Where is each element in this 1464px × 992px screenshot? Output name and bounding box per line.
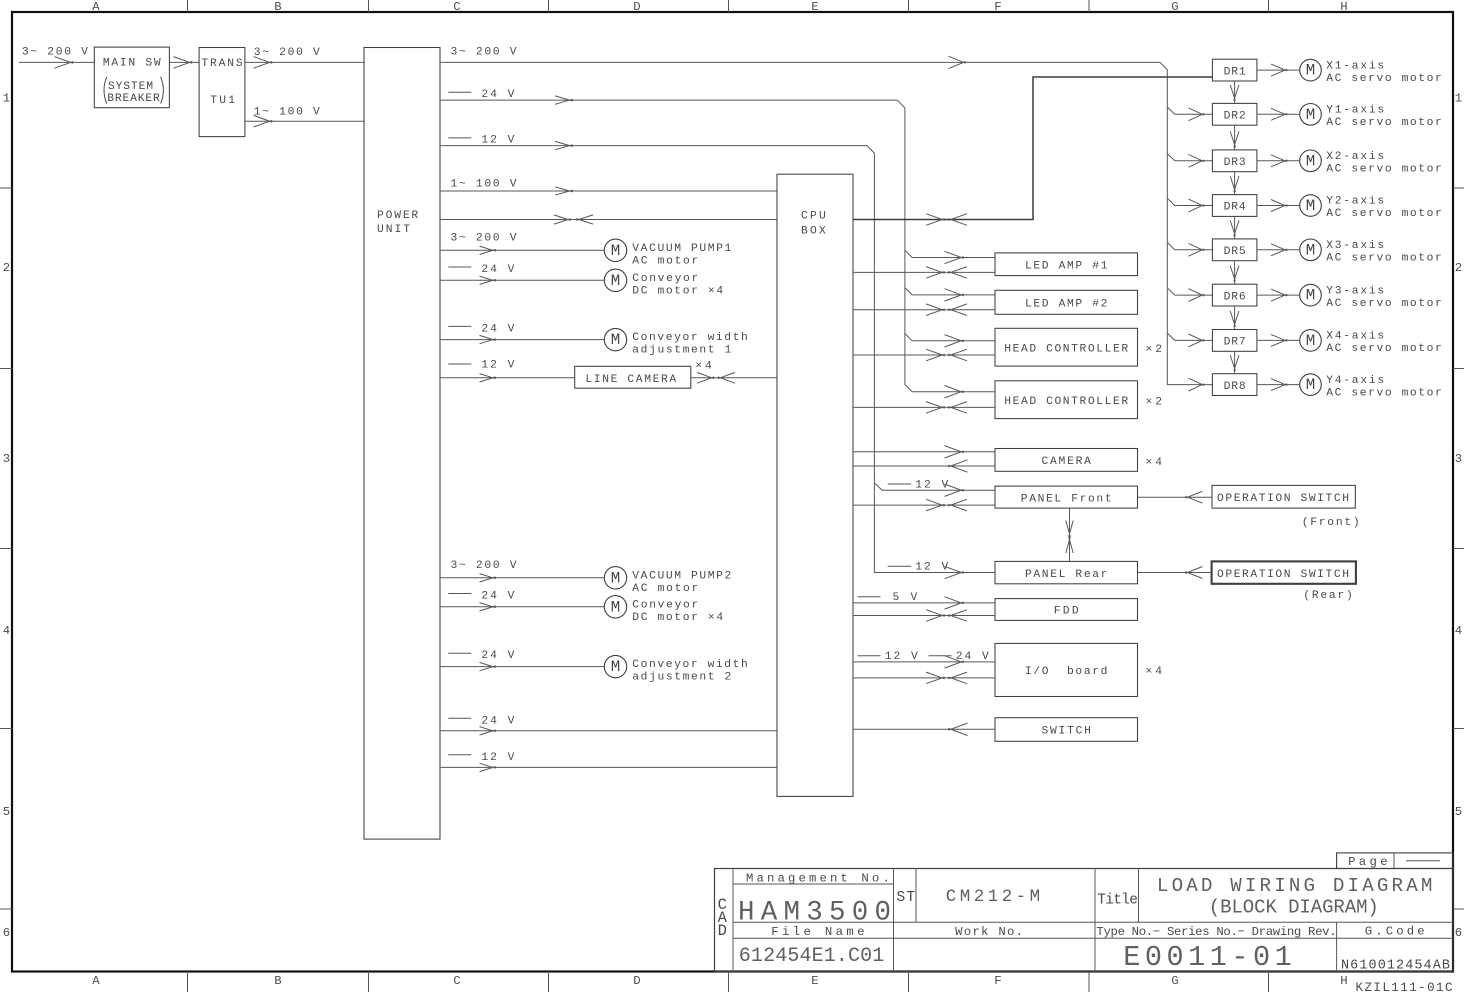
svg-text:LINE CAMERA: LINE CAMERA (585, 374, 676, 386)
svg-text:POWER: POWER (377, 210, 418, 222)
svg-text:6: 6 (1455, 926, 1462, 940)
wire CPU to LED AMP2 bidirectional (853, 304, 995, 316)
line camera box x4 (575, 360, 712, 388)
wire DR4 to DR5 chain (1230, 216, 1239, 239)
servo driver DR1 (1212, 59, 1257, 81)
svg-text:DR1: DR1 (1224, 66, 1246, 78)
wire DR3 to motor (1257, 155, 1299, 167)
wire DR1 to motor (1257, 64, 1299, 76)
wire I/O board to CPU bidirectional (853, 672, 995, 684)
svg-text:UNIT: UNIT (377, 224, 410, 236)
svg-text:1: 1 (3, 92, 10, 106)
svg-text:12 V: 12 V (481, 752, 514, 764)
svg-text:LED AMP #2: LED AMP #2 (1025, 299, 1108, 311)
wire 1~100V to CPU box (440, 179, 777, 196)
svg-text:DC motor ×4: DC motor ×4 (632, 285, 723, 297)
svg-text:LED AMP #1: LED AMP #1 (1025, 260, 1108, 272)
svg-text:Y3-axis: Y3-axis (1326, 285, 1384, 297)
wire MAIN SW to TRANS (169, 57, 199, 69)
svg-text:612454E1.C01: 612454E1.C01 (739, 945, 885, 968)
motor M X1-axis AC servo motor (1300, 59, 1442, 85)
wire 12V to CPU box (440, 752, 777, 772)
motor M conveyor DC motor x4 (2) (604, 596, 723, 624)
panel rear box (995, 561, 1138, 583)
svg-text:5 V: 5 V (893, 592, 918, 604)
svg-text:HEAD CONTROLLER: HEAD CONTROLLER (1004, 396, 1128, 408)
wire 12V bus to panels (440, 134, 995, 572)
wire 24V bus to amplifiers/controllers (440, 89, 995, 398)
svg-text:4: 4 (1455, 624, 1462, 638)
servo driver DR4 (1212, 195, 1257, 217)
svg-text:Conveyor: Conveyor (632, 599, 698, 611)
svg-text:Type No.− Series No.− Drawing: Type No.− Series No.− Drawing Rev. (1096, 925, 1336, 939)
wire operation switch rear to panel rear (1138, 567, 1212, 579)
svg-text:M: M (611, 658, 620, 676)
wire line camera to CPU bidirectional (691, 372, 777, 383)
svg-text:(BLOCK DIAGRAM): (BLOCK DIAGRAM) (1209, 897, 1379, 919)
wire TRANS 3~200V output to POWER UNIT (245, 47, 364, 68)
svg-text:M: M (611, 331, 620, 349)
wire operation switch front to panel front (1138, 491, 1213, 503)
svg-text:M: M (1306, 62, 1315, 80)
svg-text:N610012454AB: N610012454AB (1341, 959, 1450, 974)
svg-text:C: C (453, 0, 460, 14)
svg-text:3~ 200 V: 3~ 200 V (451, 47, 517, 59)
svg-text:adjustment 2: adjustment 2 (632, 672, 731, 684)
svg-text:Conveyor width: Conveyor width (632, 332, 748, 344)
wire DR2 to motor (1257, 108, 1299, 120)
svg-text:M: M (1306, 287, 1315, 305)
svg-text:5: 5 (1455, 805, 1462, 819)
servo driver DR3 (1212, 150, 1257, 172)
servo driver DR8 (1212, 374, 1257, 396)
head controller 1 box x2 (995, 328, 1162, 366)
wire DR1 to DR2 chain (1230, 81, 1239, 103)
svg-text:B: B (274, 974, 281, 988)
svg-text:3: 3 (1455, 452, 1462, 466)
svg-text:PANEL Rear: PANEL Rear (1025, 569, 1108, 581)
title block page cell (1337, 853, 1453, 869)
svg-text:M: M (1306, 197, 1315, 215)
svg-text:H: H (1340, 0, 1347, 14)
wire 12V to line camera (440, 359, 575, 382)
svg-text:OPERATION SWITCH: OPERATION SWITCH (1217, 569, 1349, 581)
svg-text:AC servo motor: AC servo motor (1326, 387, 1442, 399)
wire DR6 to DR7 chain (1230, 306, 1239, 330)
svg-text:VACUUM PUMP1: VACUUM PUMP1 (632, 243, 731, 255)
wire 3~200V mains input (19, 47, 94, 69)
motor M conveyor width adjustment 1 (604, 328, 748, 356)
wire DR3 to DR4 chain (1230, 172, 1239, 195)
svg-text:I/O board: I/O board (1025, 666, 1108, 678)
motor M X4-axis AC servo motor (1300, 330, 1442, 356)
svg-text:M: M (1306, 152, 1315, 170)
svg-text:SYSTEM: SYSTEM (108, 81, 153, 93)
svg-text:DR3: DR3 (1224, 157, 1246, 169)
motor M Y3-axis AC servo motor (1300, 284, 1442, 309)
svg-text:KZIL111-01C: KZIL111-01C (1356, 981, 1453, 992)
wire branches 24V bus to LED AMP 1/2 and HEAD CONTROLLER 1 (905, 250, 995, 347)
svg-text:HEAD CONTROLLER: HEAD CONTROLLER (1004, 343, 1128, 355)
svg-text:24 V: 24 V (481, 264, 514, 276)
svg-text:24 V: 24 V (481, 89, 514, 101)
svg-text:VACUUM PUMP2: VACUUM PUMP2 (632, 570, 731, 582)
servo driver DR2 (1212, 103, 1257, 125)
wire 24V to conveyor width adjustment1 (440, 324, 604, 344)
wire CPU to DR1 (853, 77, 1212, 225)
motor M Y1-axis AC servo motor (1300, 104, 1442, 130)
svg-text:24 V: 24 V (481, 650, 514, 662)
svg-text:CPU: CPU (801, 210, 826, 222)
svg-text:A: A (92, 974, 100, 988)
wire DR2 to DR3 chain (1230, 125, 1239, 150)
svg-text:AC servo motor: AC servo motor (1326, 164, 1442, 176)
wire CPU to LED AMP1 bidirectional (853, 267, 995, 279)
wire DR7 to DR8 chain (1230, 351, 1239, 373)
wire DR6 to motor (1257, 289, 1299, 301)
svg-text:(Front): (Front) (1302, 517, 1360, 529)
servo driver DR6 (1212, 284, 1257, 306)
motor M vacuum pump2 AC motor (604, 567, 731, 595)
svg-text:12 V: 12 V (915, 562, 948, 574)
servo driver DR5 (1212, 239, 1257, 261)
wire POWER UNIT to CPU bidirectional (440, 215, 777, 224)
svg-text:Conveyor: Conveyor (632, 273, 698, 285)
motor M conveyor DC motor x4 (1) (604, 269, 723, 297)
svg-text:PANEL Front: PANEL Front (1021, 493, 1112, 505)
svg-text:4: 4 (3, 624, 10, 638)
svg-text:12 V: 12 V (915, 479, 948, 491)
svg-text:6: 6 (3, 926, 10, 940)
svg-text:3~ 200 V: 3~ 200 V (451, 560, 517, 572)
wire branches 200V bus to DR2-DR7 (1167, 107, 1212, 347)
svg-text:DR4: DR4 (1224, 202, 1246, 214)
svg-text:D: D (633, 974, 640, 988)
svg-text:X1-axis: X1-axis (1326, 60, 1384, 72)
svg-text:1~ 100 V: 1~ 100 V (254, 106, 320, 118)
svg-text:M: M (611, 272, 620, 290)
svg-text:5: 5 (3, 805, 10, 819)
wire DR7 to motor (1257, 334, 1299, 346)
svg-text:M: M (1306, 241, 1315, 259)
wire 24V to conveyor width adjustment2 (440, 650, 604, 671)
motor M X3-axis AC servo motor (1300, 239, 1442, 265)
svg-text:2: 2 (3, 261, 10, 275)
svg-text:24 V: 24 V (481, 716, 514, 728)
label 12V on PANEL Rear feed (888, 562, 964, 579)
motor M vacuum pump1 AC motor (604, 239, 731, 267)
motor M conveyor width adjustment 2 (604, 655, 748, 683)
document code KZIL111-01C (1356, 981, 1453, 992)
svg-text:X3-axis: X3-axis (1326, 240, 1384, 252)
svg-text:ST: ST (897, 890, 916, 906)
wire TRANS 1~100V output to POWER UNIT (245, 106, 364, 127)
svg-text:File Name: File Name (771, 925, 864, 939)
head controller 2 box x2 (995, 381, 1162, 419)
svg-text:2: 2 (1455, 261, 1462, 275)
wire DR8 to motor (1257, 379, 1299, 391)
servo driver DR7 (1212, 330, 1257, 352)
svg-text:G: G (1171, 974, 1178, 988)
svg-text:Y2-axis: Y2-axis (1326, 196, 1384, 208)
I/O board box x4 (995, 643, 1162, 696)
svg-text:OPERATION SWITCH: OPERATION SWITCH (1217, 493, 1349, 505)
svg-text:AC servo motor: AC servo motor (1326, 253, 1442, 265)
wire CPU to head controller1 bidirectional (853, 349, 995, 361)
LED amplifier 2 box (995, 290, 1138, 314)
svg-text:AC servo motor: AC servo motor (1326, 208, 1442, 220)
svg-text:D: D (633, 0, 640, 14)
wire branch 12V to PANEL Front with 12V label (874, 479, 995, 496)
wire CPU 12V/24V to I/O board (853, 651, 995, 668)
svg-text:BOX: BOX (801, 226, 826, 238)
panel front box (995, 486, 1138, 508)
title block type number / drawing number (1096, 925, 1336, 974)
svg-text:Title: Title (1097, 893, 1138, 909)
svg-text:3: 3 (3, 452, 10, 466)
wire 24V to conveyor DC motor1 (440, 264, 604, 285)
wire camera to CPU (853, 460, 995, 472)
svg-text:X2-axis: X2-axis (1326, 151, 1384, 163)
svg-text:F: F (994, 0, 1001, 14)
svg-text:AC servo motor: AC servo motor (1326, 343, 1442, 355)
svg-text:3~ 200 V: 3~ 200 V (22, 47, 88, 59)
svg-text:AC motor: AC motor (632, 583, 698, 595)
title block title (1097, 875, 1432, 919)
motor M X2-axis AC servo motor (1300, 150, 1442, 176)
svg-text:X4-axis: X4-axis (1326, 331, 1384, 343)
svg-text:M: M (1306, 376, 1315, 394)
svg-text:12 V: 12 V (481, 359, 514, 371)
svg-text:DC motor ×4: DC motor ×4 (632, 612, 723, 624)
wire DR5 to motor (1257, 244, 1299, 256)
svg-text:1: 1 (1455, 92, 1462, 106)
svg-text:AC servo motor: AC servo motor (1326, 73, 1442, 85)
svg-text:24 V: 24 V (481, 324, 514, 336)
svg-text:DR7: DR7 (1224, 337, 1246, 349)
svg-text:TU1: TU1 (210, 95, 235, 107)
svg-text:E: E (811, 0, 818, 14)
svg-text:12 V: 12 V (885, 651, 918, 663)
breaker MAIN SW (SYSTEM BREAKER) (94, 47, 169, 108)
wire 24V to CPU box (440, 716, 777, 736)
svg-text:G: G (1171, 0, 1178, 14)
svg-text:F: F (994, 974, 1001, 988)
svg-text:E: E (811, 974, 818, 988)
power unit (364, 48, 440, 840)
svg-text:adjustment 1: adjustment 1 (632, 345, 731, 357)
svg-text:FDD: FDD (1054, 606, 1079, 618)
CPU box (777, 174, 853, 796)
svg-text:3~ 200 V: 3~ 200 V (451, 233, 517, 245)
svg-text:D: D (718, 922, 727, 940)
svg-text:M: M (1306, 332, 1315, 350)
wire 24V to conveyor DC motor2 (440, 590, 604, 611)
wire 3~200V to vacuum pump1 (440, 233, 604, 255)
transformer TRANS TU1 (199, 48, 245, 137)
svg-text:Work No.: Work No. (955, 925, 1023, 939)
wire DR4 to motor (1257, 200, 1299, 212)
svg-text:BREAKER: BREAKER (107, 93, 160, 105)
operation switch front box (1212, 485, 1360, 529)
svg-text:C: C (453, 974, 460, 988)
wire panel front to panel rear link (1066, 508, 1073, 561)
LED amplifier 1 box (995, 253, 1138, 276)
svg-text:CM212-M: CM212-M (946, 887, 1040, 907)
svg-text:TRANS: TRANS (201, 58, 242, 70)
svg-text:DR6: DR6 (1224, 291, 1246, 303)
svg-text:24 V: 24 V (481, 590, 514, 602)
svg-text:Conveyor width: Conveyor width (632, 659, 748, 671)
svg-text:M: M (611, 598, 620, 616)
wire switch to CPU (853, 723, 995, 735)
svg-text:M: M (611, 242, 620, 260)
svg-text:H: H (1340, 974, 1347, 988)
wire 3~200V to vacuum pump2 (440, 560, 604, 582)
wire 3~200V bus to servo drivers (440, 47, 1212, 391)
title block G code (1341, 924, 1450, 973)
wire DR5 to DR6 chain (1230, 261, 1239, 285)
svg-text:A: A (92, 0, 100, 14)
svg-text:DR8: DR8 (1224, 381, 1246, 393)
svg-text:Y4-axis: Y4-axis (1326, 375, 1384, 387)
title block file name (739, 925, 885, 968)
title block (715, 869, 1454, 972)
svg-text:B: B (274, 0, 281, 14)
svg-text:24 V: 24 V (956, 651, 989, 663)
wire CPU to camera (853, 446, 995, 458)
wire CPU to panel front bidirectional (853, 499, 995, 511)
wire FDD to CPU bidirectional (853, 610, 995, 622)
svg-text:AC motor: AC motor (632, 255, 698, 267)
svg-text:AC servo motor: AC servo motor (1326, 117, 1442, 129)
motor M Y2-axis AC servo motor (1300, 195, 1442, 221)
svg-text:M: M (1306, 106, 1315, 124)
svg-text:DR5: DR5 (1224, 246, 1246, 258)
title block management number (738, 871, 891, 928)
svg-text:AC servo motor: AC servo motor (1326, 298, 1442, 310)
svg-text:3~ 200 V: 3~ 200 V (254, 47, 320, 59)
svg-text:M: M (611, 569, 620, 587)
operation switch rear box (1212, 561, 1356, 602)
wire CPU 5V to FDD (853, 592, 995, 609)
svg-text:1~ 100 V: 1~ 100 V (451, 179, 517, 191)
FDD box (995, 599, 1138, 621)
motor M Y4-axis AC servo motor (1300, 374, 1442, 399)
switch box (995, 718, 1138, 742)
svg-text:12 V: 12 V (481, 134, 514, 146)
svg-text:DR2: DR2 (1224, 111, 1246, 123)
title block CAD letters (718, 896, 728, 940)
svg-text:Y1-axis: Y1-axis (1326, 105, 1384, 117)
camera box x4 (995, 449, 1162, 472)
title block ST / work number (897, 887, 1041, 939)
wire CPU to head controller2 bidirectional (853, 402, 995, 414)
